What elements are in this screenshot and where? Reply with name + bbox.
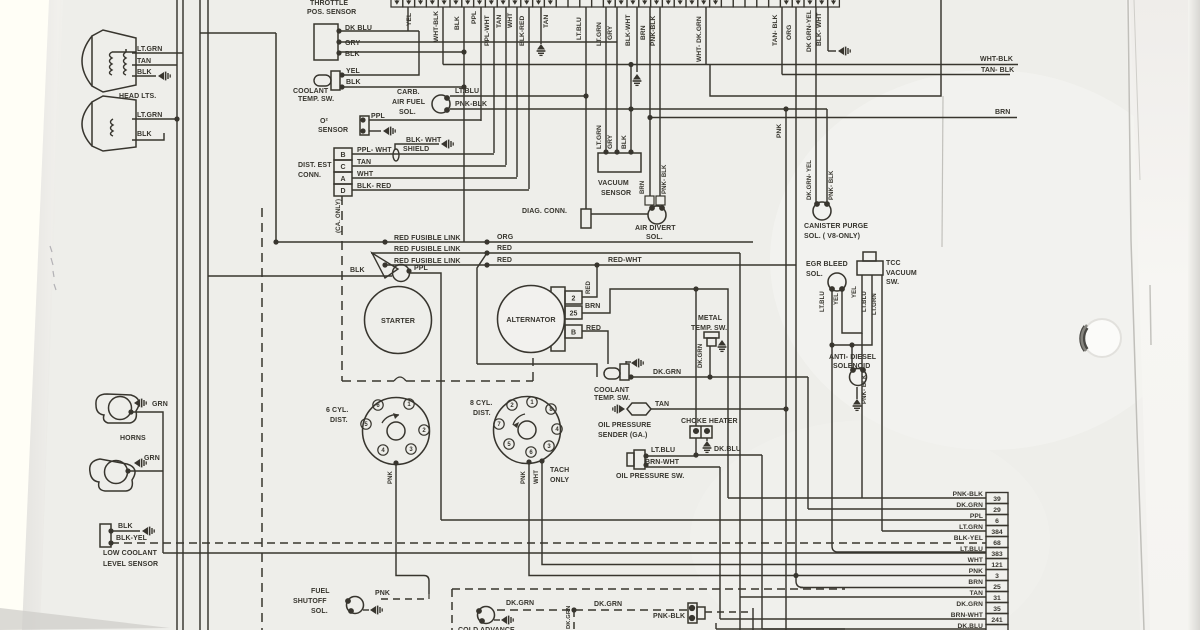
wire V8 dashed box left xyxy=(451,589,453,630)
svg-text:TCC: TCC xyxy=(886,260,901,267)
svg-text:SENSOR: SENSOR xyxy=(318,127,348,134)
wire CA dashed horizontal xyxy=(342,380,533,382)
wire DK.GRN wire xyxy=(631,376,808,378)
node 6cyl pnk pin xyxy=(393,460,398,465)
vacuum sensor xyxy=(598,153,641,172)
svg-text:LT.GRN: LT.GRN xyxy=(137,112,162,119)
svg-text:WHT: WHT xyxy=(507,13,514,28)
svg-text:BLK-YEL: BLK-YEL xyxy=(116,535,148,542)
wire BRN-WHT down xyxy=(719,467,721,619)
svg-text:PPL: PPL xyxy=(371,113,386,120)
svg-text:LT.BLU: LT.BLU xyxy=(862,291,868,312)
warm white blog background strip at far left xyxy=(0,0,49,630)
node ad junction xyxy=(849,342,854,347)
wire PPL-WHT wire xyxy=(352,153,494,155)
node hl2 junction xyxy=(174,116,179,121)
air divert pin boxes xyxy=(645,196,654,205)
svg-text:STARTER: STARTER xyxy=(381,316,416,325)
horn lower xyxy=(90,459,135,491)
wire LT.BLU row long xyxy=(163,552,986,554)
svg-text:SOL. ( V8-ONLY): SOL. ( V8-ONLY) xyxy=(804,233,860,240)
choke heater xyxy=(690,426,712,438)
wire BLK-YEL dashed xyxy=(111,542,986,544)
svg-text:DK.BLU: DK.BLU xyxy=(714,446,741,453)
starter motor xyxy=(365,287,432,354)
wire DK.GRN dashed xyxy=(497,609,688,611)
wire fusible triangle xyxy=(372,253,398,278)
ground (coolant2 ground) xyxy=(631,359,643,368)
svg-text:LT.BLU: LT.BLU xyxy=(455,88,479,95)
wire PPL-WHT drop xyxy=(493,7,495,153)
svg-text:SW.: SW. xyxy=(886,279,899,286)
coolant temp switch 2 xyxy=(604,364,629,380)
wire vertical x276 xyxy=(275,33,277,242)
svg-text:BLK-WHT: BLK-WHT xyxy=(625,15,632,46)
wire CA dashed vertical 2 xyxy=(341,196,343,381)
svg-text:29: 29 xyxy=(993,507,1001,514)
svg-text:PNK: PNK xyxy=(776,124,783,138)
svg-text:AIR FUEL: AIR FUEL xyxy=(392,99,426,106)
wire RED B route xyxy=(477,364,597,377)
alternator pin box 2 xyxy=(565,291,582,304)
wire GRY xyxy=(339,41,617,43)
svg-text:LT.GRN: LT.GRN xyxy=(596,22,603,46)
svg-text:BLK: BLK xyxy=(137,69,152,76)
svg-text:DIAG. CONN.: DIAG. CONN. xyxy=(522,208,567,215)
wire TCC LT.GRN xyxy=(881,275,883,531)
svg-text:TAN- BLK: TAN- BLK xyxy=(981,67,1014,74)
wire BLK to starter xyxy=(208,275,392,277)
wire feed line RED2 xyxy=(371,252,740,254)
svg-text:PNK: PNK xyxy=(388,470,394,484)
wire bus wire 1 xyxy=(176,0,178,630)
svg-text:BRN: BRN xyxy=(968,579,983,586)
svg-text:GRY: GRY xyxy=(345,40,360,47)
node blk2 junction xyxy=(628,62,633,67)
svg-text:SOL.: SOL. xyxy=(311,608,328,615)
svg-text:PNK- BLK: PNK- BLK xyxy=(829,170,835,200)
svg-text:DK.GRN: DK.GRN xyxy=(956,502,983,509)
wire PNK-BLK drop xyxy=(659,7,661,196)
svg-text:WHT-BLK: WHT-BLK xyxy=(433,11,440,42)
svg-text:GRN: GRN xyxy=(144,455,160,462)
svg-text:DK.BLU: DK.BLU xyxy=(957,623,983,630)
svg-text:ALTERNATOR: ALTERNATOR xyxy=(506,315,556,324)
svg-text:COOLANT: COOLANT xyxy=(594,387,630,394)
ground (headlight ground) xyxy=(158,72,170,81)
node horn2 pin xyxy=(125,468,130,473)
svg-text:(CA. ONLY): (CA. ONLY) xyxy=(335,199,342,233)
svg-text:RED: RED xyxy=(586,325,601,332)
wire PNK tach wire xyxy=(529,462,986,576)
svg-text:BLK- WHT: BLK- WHT xyxy=(406,137,442,144)
throttle position sensor xyxy=(314,24,338,60)
svg-text:68: 68 xyxy=(993,540,1001,547)
wire PNK-BLK row xyxy=(728,497,986,499)
svg-text:6: 6 xyxy=(995,518,999,525)
svg-text:POS. SENSOR: POS. SENSOR xyxy=(307,9,356,16)
lighter patch right-center xyxy=(770,70,1200,450)
svg-text:LT.GRN: LT.GRN xyxy=(596,125,603,149)
starter solenoid terminal xyxy=(393,265,410,282)
svg-text:TEMP. SW.: TEMP. SW. xyxy=(298,96,334,103)
svg-text:BRN: BRN xyxy=(995,109,1010,116)
svg-text:BLK: BLK xyxy=(137,131,152,138)
svg-text:PNK: PNK xyxy=(521,470,527,484)
oil pressure switch xyxy=(627,450,645,469)
wire TAN wire xyxy=(352,165,506,167)
ground (O2 ground) xyxy=(383,127,395,136)
low coolant level sensor xyxy=(100,524,111,547)
svg-text:HEAD LTS.: HEAD LTS. xyxy=(119,93,156,100)
svg-text:PPL: PPL xyxy=(970,513,983,520)
wire DK.BLU wire xyxy=(696,454,762,456)
wire LT.BLU wire oil xyxy=(646,455,696,457)
svg-text:TAN: TAN xyxy=(543,15,550,28)
solenoid anti-diesel solenoid xyxy=(850,367,867,385)
coolant temp switch xyxy=(314,71,340,90)
wire EGR YEL xyxy=(842,275,862,333)
wire DK BLU/YEL xyxy=(339,30,419,32)
svg-text:TAN: TAN xyxy=(970,590,983,597)
svg-text:RED-WHT: RED-WHT xyxy=(608,257,642,264)
node lc pin2 xyxy=(108,540,113,545)
svg-text:B: B xyxy=(571,330,576,337)
svg-text:BLK: BLK xyxy=(350,267,365,274)
ground (metal temp ground) xyxy=(718,340,727,351)
node throttle pin xyxy=(336,50,341,55)
svg-text:BRN-WHT: BRN-WHT xyxy=(645,459,680,466)
svg-text:SOL.: SOL. xyxy=(646,234,663,241)
wire TAN row xyxy=(740,596,986,598)
svg-text:A: A xyxy=(340,176,345,183)
node 8cyl wht pin xyxy=(539,458,544,463)
far right edge shading xyxy=(1188,0,1200,630)
wire BRN-WHT row xyxy=(720,618,986,620)
ground (horn1 ground) xyxy=(134,399,146,408)
node feed3 j1 xyxy=(382,262,387,267)
svg-text:ORG: ORG xyxy=(497,234,514,241)
svg-text:ANTI- DIESEL: ANTI- DIESEL xyxy=(829,354,877,361)
svg-text:BRN-WHT: BRN-WHT xyxy=(951,612,983,619)
wire LT.BLU wire xyxy=(450,95,586,97)
svg-text:PNK-BLK: PNK-BLK xyxy=(455,101,487,108)
svg-text:383: 383 xyxy=(991,551,1003,558)
wire PNK vertical xyxy=(785,109,787,630)
distributor 6-cylinder xyxy=(361,398,430,465)
wire DK.BLU row xyxy=(762,628,986,630)
node feed3 j2 xyxy=(484,262,489,267)
solenoid air divert solenoid xyxy=(648,205,666,224)
wire BLK-RED drop xyxy=(528,7,530,189)
wire DK.BLU long bottom xyxy=(716,628,845,630)
svg-text:LT.BLU: LT.BLU xyxy=(576,17,583,40)
wire LT.GRN wire hl1 xyxy=(132,52,183,54)
node pnkblk junction1 xyxy=(628,106,633,111)
svg-text:TAN- BLK: TAN- BLK xyxy=(772,14,779,46)
ground (lc ground) xyxy=(142,527,154,536)
svg-text:RED: RED xyxy=(497,257,512,264)
wire PNK-BLK drop2 xyxy=(826,109,828,202)
svg-text:ORG: ORG xyxy=(786,25,793,40)
svg-text:241: 241 xyxy=(991,617,1003,624)
svg-text:2: 2 xyxy=(572,296,576,303)
svg-text:DK.GRN: DK.GRN xyxy=(698,344,704,368)
wire BLK-WHT drop xyxy=(636,7,638,72)
svg-text:BLK: BLK xyxy=(118,523,133,530)
svg-text:TACH: TACH xyxy=(550,467,569,474)
svg-text:3: 3 xyxy=(995,573,999,580)
oil pressure sender hex xyxy=(627,403,651,415)
svg-text:SOL.: SOL. xyxy=(806,271,823,278)
node org-pnk junction xyxy=(793,573,798,578)
node ppl pin xyxy=(406,268,411,273)
svg-text:WHT-BLK: WHT-BLK xyxy=(980,56,1013,63)
svg-text:RED FUSIBLE LINK: RED FUSIBLE LINK xyxy=(394,235,461,242)
svg-text:TAN: TAN xyxy=(137,58,151,65)
svg-text:SENDER (GA.): SENDER (GA.) xyxy=(598,432,647,439)
wire BLK-RED wire xyxy=(352,189,529,191)
wire TAN-BLK horizontal xyxy=(782,74,1010,76)
node choke feed junction xyxy=(693,286,698,291)
svg-text:WHT: WHT xyxy=(968,557,983,564)
wire DK GRN-YEL drop xyxy=(815,7,817,202)
wire horn bus down xyxy=(162,471,164,553)
wire WHT drop xyxy=(516,7,518,177)
wire V8 dashed box top xyxy=(452,588,845,590)
svg-text:D: D xyxy=(340,188,345,195)
svg-text:C: C xyxy=(340,164,345,171)
O2 sensor connector xyxy=(360,116,369,135)
svg-text:PNK- BLK: PNK- BLK xyxy=(662,164,668,194)
right page area beyond fold xyxy=(1130,0,1200,630)
svg-text:GRN: GRN xyxy=(152,401,168,408)
wire plug drop xyxy=(715,623,717,629)
svg-text:BLK: BLK xyxy=(346,79,361,86)
right bulkhead connector ladder xyxy=(986,493,1008,630)
svg-text:LT.GRN: LT.GRN xyxy=(959,524,983,531)
wire PPL drop xyxy=(480,7,482,121)
node blk junction1 xyxy=(461,49,466,54)
diagnostic connector xyxy=(581,209,591,228)
wire shield jog xyxy=(395,144,439,149)
svg-text:DK.GRN: DK.GRN xyxy=(506,600,534,607)
svg-text:GRY: GRY xyxy=(607,25,614,40)
wire horn2 wire xyxy=(128,470,163,472)
node vac pin1 xyxy=(603,149,608,154)
svg-text:LOW COOLANT: LOW COOLANT xyxy=(103,550,158,557)
node brn junction xyxy=(647,115,652,120)
svg-text:PPL: PPL xyxy=(471,11,478,24)
ground (TAN2 ground) xyxy=(537,44,546,55)
paper left edge shadow xyxy=(22,0,63,630)
svg-text:BRN: BRN xyxy=(585,303,600,310)
carburetor air/fuel solenoid xyxy=(432,95,450,113)
wire choke right pin xyxy=(706,438,708,441)
svg-text:6 CYL.: 6 CYL. xyxy=(326,407,348,414)
svg-text:THROTTLE: THROTTLE xyxy=(310,0,348,7)
svg-text:SHUTOFF: SHUTOFF xyxy=(293,598,327,605)
svg-text:TEMP. SW.: TEMP. SW. xyxy=(594,395,630,402)
svg-text:B: B xyxy=(340,152,345,159)
shield oval xyxy=(393,149,399,161)
wire diag to air divert xyxy=(591,213,648,215)
alternator pin box B xyxy=(565,325,582,338)
headlight upper xyxy=(82,30,136,92)
svg-text:RED FUSIBLE LINK: RED FUSIBLE LINK xyxy=(394,246,461,253)
wire PNK-BLK plug dash xyxy=(705,611,750,613)
wire CA dashed vertical xyxy=(261,208,263,630)
wire YEL drop xyxy=(407,7,409,31)
wire anti-diesel feed xyxy=(851,345,853,369)
alternator body rect xyxy=(551,287,565,351)
svg-text:CONN.: CONN. xyxy=(298,172,321,179)
wire bus wire 2 xyxy=(182,0,184,630)
solenoid fuel shutoff solenoid xyxy=(345,597,363,614)
node oilsw pin2 xyxy=(643,462,648,467)
ground (BLK-WHT2 ground) xyxy=(838,47,850,56)
svg-text:CARB.: CARB. xyxy=(397,89,420,96)
horn upper xyxy=(96,394,139,423)
node coolant2 pin xyxy=(628,374,633,379)
node feed3 j3 xyxy=(594,262,599,267)
wire CA dashed elbow xyxy=(532,358,534,381)
node horn1 pin xyxy=(128,409,133,414)
svg-text:121: 121 xyxy=(991,562,1003,569)
wire LT.GRN wire hl2 xyxy=(132,118,177,120)
faint handwriting marks left margin xyxy=(50,246,56,290)
wire TAN vertical xyxy=(739,253,741,630)
svg-text:TAN: TAN xyxy=(655,401,669,408)
wire TCC LT.BLU xyxy=(832,275,872,345)
wire BLK drop xyxy=(463,7,465,242)
node dkgrn junction xyxy=(707,374,712,379)
svg-text:DK.GRN: DK.GRN xyxy=(566,606,572,629)
wire EGR LT.BLU xyxy=(831,289,833,345)
svg-text:WHT- DK.GRN: WHT- DK.GRN xyxy=(696,16,703,62)
bottom-left paper corner shadow xyxy=(0,608,170,630)
wire LT.GRN drop xyxy=(605,7,607,152)
svg-text:OIL PRESSURE SW.: OIL PRESSURE SW. xyxy=(616,473,684,480)
wire TAN-BLK drop xyxy=(781,7,783,75)
node blk junction2 xyxy=(461,84,466,89)
svg-text:HORNS: HORNS xyxy=(120,435,146,442)
wire PPL row long xyxy=(441,519,986,521)
wire BLK wire hl1 xyxy=(132,75,156,77)
wire lc BLK wire xyxy=(111,530,140,532)
svg-text:PPL-WHT: PPL-WHT xyxy=(484,15,491,46)
wire WHT wire xyxy=(352,177,517,179)
svg-text:PPL- WHT: PPL- WHT xyxy=(357,147,392,154)
svg-text:PNK-BLK: PNK-BLK xyxy=(653,613,685,620)
wire LT.BLU drop xyxy=(585,7,587,209)
svg-text:PNK-BLK: PNK-BLK xyxy=(953,491,984,498)
svg-text:OIL PRESSURE: OIL PRESSURE xyxy=(598,422,651,429)
node vac pin3 xyxy=(628,149,633,154)
ground (shield ground) xyxy=(441,140,453,149)
wire choke feed xyxy=(695,289,697,426)
svg-text:35: 35 xyxy=(993,606,1001,613)
node tan junction xyxy=(783,406,788,411)
svg-text:BLK- RED: BLK- RED xyxy=(357,183,391,190)
wire RED to 2 xyxy=(582,265,597,297)
wire PNK-BLK wire xyxy=(450,108,827,110)
svg-text:YEL: YEL xyxy=(834,293,840,305)
wire PNK 6cyl wire xyxy=(396,463,429,594)
svg-text:39: 39 xyxy=(993,496,1001,503)
wire PNK dash elbow xyxy=(428,594,430,599)
node feed1 j1 xyxy=(273,239,278,244)
wire coolant BLK xyxy=(342,86,464,88)
distributor EST connector xyxy=(334,148,352,196)
node feed2 j xyxy=(484,250,489,255)
svg-text:EGR BLEED: EGR BLEED xyxy=(806,261,848,268)
wire DK.GRN down xyxy=(807,377,809,509)
wire BRN row xyxy=(800,587,986,589)
svg-text:RED: RED xyxy=(586,280,592,294)
svg-text:SENSOR: SENSOR xyxy=(601,190,631,197)
svg-text:TAN: TAN xyxy=(496,15,503,28)
wire BRN loop xyxy=(582,289,728,498)
svg-text:LT.GRN: LT.GRN xyxy=(872,293,878,315)
ground (cold advance ground) xyxy=(501,616,513,625)
node feed1 j3 xyxy=(484,239,489,244)
svg-text:BLK- WHT: BLK- WHT xyxy=(816,13,823,46)
node egr junction xyxy=(829,342,834,347)
wire TAN2 drop xyxy=(540,7,542,44)
svg-text:DK GRN-YEL: DK GRN-YEL xyxy=(806,10,813,52)
solenoid canister purge solenoid xyxy=(813,201,831,220)
wire feed line ORG xyxy=(276,241,753,243)
wire WHT-DK.GRN route xyxy=(710,0,941,96)
node lc pin1 xyxy=(108,528,113,533)
wire PPL wire xyxy=(409,273,441,520)
svg-text:BRN: BRN xyxy=(640,181,646,194)
wire CA dashed hop xyxy=(394,377,406,381)
svg-text:TAN: TAN xyxy=(357,159,371,166)
svg-text:LEVEL SENSOR: LEVEL SENSOR xyxy=(103,561,158,568)
node pnkblk junction2 xyxy=(783,106,788,111)
svg-text:DK.GRN: DK.GRN xyxy=(653,369,681,376)
svg-text:RED FUSIBLE LINK: RED FUSIBLE LINK xyxy=(394,258,461,265)
node choke junction xyxy=(693,452,698,457)
svg-text:25: 25 xyxy=(993,584,1001,591)
node oilsw pin1 xyxy=(643,453,648,458)
ground (fuel shutoff ground) xyxy=(370,606,382,615)
svg-text:CANISTER PURGE: CANISTER PURGE xyxy=(804,223,868,230)
svg-text:RED: RED xyxy=(497,245,512,252)
scan crease xyxy=(942,96,943,247)
wire TAN wire hl1 xyxy=(132,64,177,66)
svg-text:VACUUM: VACUUM xyxy=(598,180,629,187)
svg-text:DIST.: DIST. xyxy=(330,417,348,424)
svg-text:VACUUM: VACUUM xyxy=(886,270,917,277)
svg-text:SOL.: SOL. xyxy=(399,109,416,116)
svg-text:PNK: PNK xyxy=(969,568,983,575)
ground (horn2 ground) xyxy=(134,459,146,468)
svg-text:WHT: WHT xyxy=(534,470,540,484)
wire LT.GRN row xyxy=(882,530,986,532)
metal temp switch xyxy=(704,332,719,346)
node vac pin2 xyxy=(614,149,619,154)
wire WHT-BLK horizontal xyxy=(443,64,1018,66)
svg-text:FUEL: FUEL xyxy=(311,588,330,595)
wire ORG vertical lower xyxy=(752,608,754,630)
node dkgrn dash junction xyxy=(571,607,576,612)
svg-text:SHIELD: SHIELD xyxy=(403,146,429,153)
svg-text:O²: O² xyxy=(320,118,329,125)
alternator xyxy=(498,286,565,353)
